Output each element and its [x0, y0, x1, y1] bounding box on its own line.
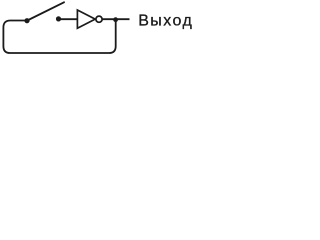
svg-text:Выход: Выход	[138, 12, 193, 29]
